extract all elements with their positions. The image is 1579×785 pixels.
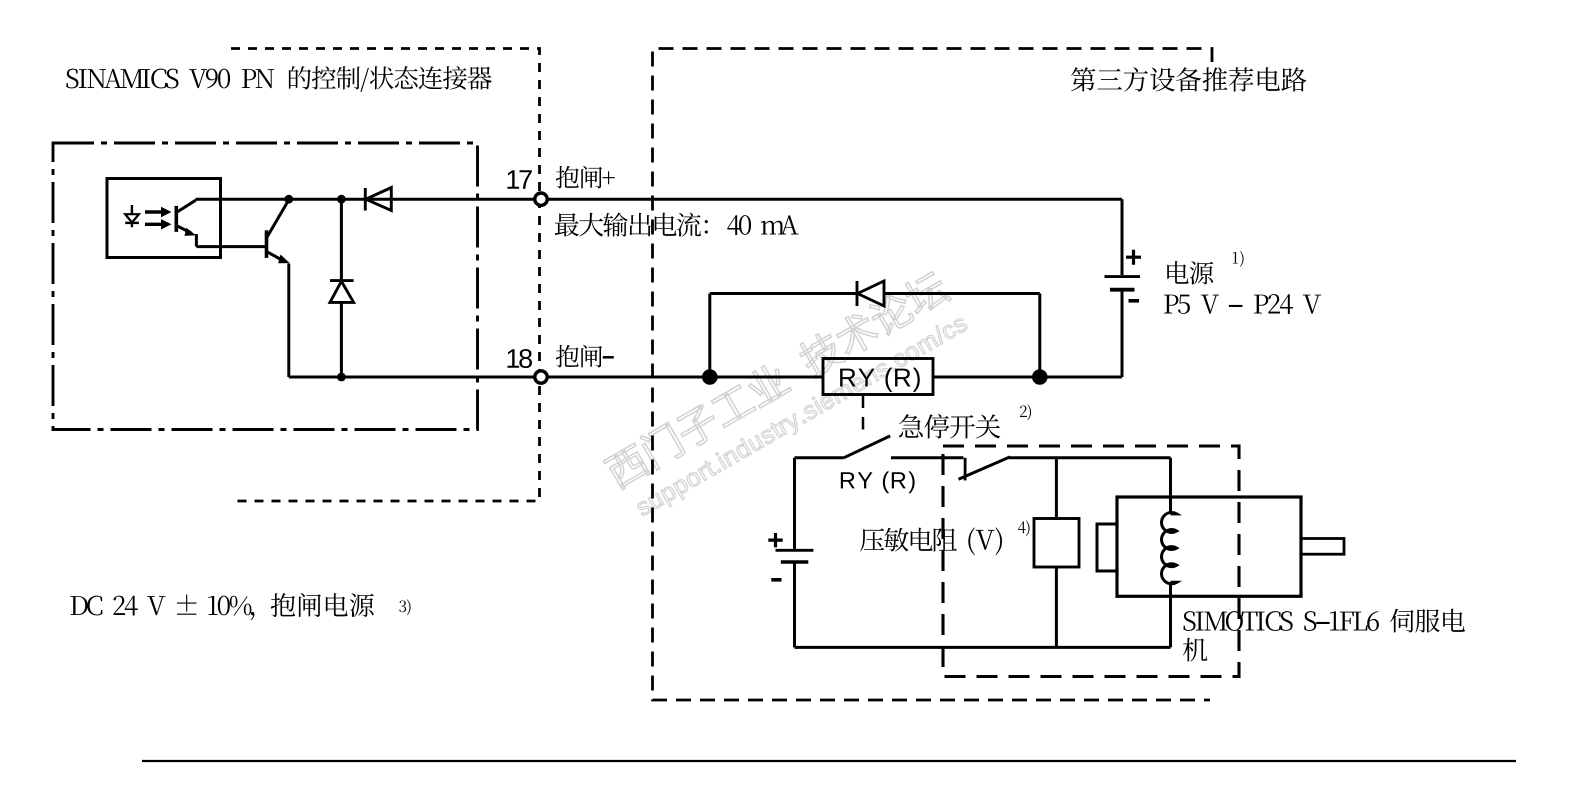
switch S1 contact blade RY (R) xyxy=(844,436,891,458)
wire terminal 17 to supply xyxy=(547,198,1122,201)
watermark forum text xyxy=(602,267,971,524)
wire relay to right junction xyxy=(933,376,1040,379)
terminal 18 circle xyxy=(535,371,547,383)
motor shaft xyxy=(1301,539,1344,555)
wire coil to bottom rail xyxy=(1169,582,1172,647)
terminal 17 circle xyxy=(535,193,547,205)
motor body box xyxy=(1117,497,1301,596)
horizontal rule xyxy=(142,760,1516,762)
label supply 电源 xyxy=(1167,261,1213,284)
varistor RV box xyxy=(1034,519,1079,568)
optocoupler light arrows xyxy=(145,207,172,230)
transistor Q2 xyxy=(267,201,290,378)
label switch RY (R) xyxy=(841,471,915,493)
wire battery to switch xyxy=(795,456,844,459)
label relay coil RY (R) xyxy=(840,368,920,392)
label SIMOTICS S-1FL6 servo motor xyxy=(1183,609,1465,662)
node junction dot C xyxy=(337,373,346,382)
relay coil RY (R) box xyxy=(823,359,933,395)
wire right junction to supply xyxy=(1040,376,1122,379)
wire brake+ rail (collector to terminal 17) xyxy=(196,198,535,201)
label varistor xyxy=(860,527,1002,555)
node junction dot B xyxy=(337,195,346,204)
label third-party recommended circuit title xyxy=(1071,67,1306,92)
dotted enclosure box (SINAMICS V90 PN connector region) xyxy=(231,49,540,502)
wire bottom return rail xyxy=(795,646,1171,649)
label terminal 17 xyxy=(507,170,531,189)
wire freewheel right leg xyxy=(1038,294,1041,378)
wire varistor top leg xyxy=(1055,458,1058,519)
battery BT1 (brake supply) xyxy=(1105,199,1142,377)
wire Q2 emitter rail to terminal 18 xyxy=(289,376,535,379)
wire terminal 18 to relay xyxy=(547,376,823,379)
wire freewheel top right xyxy=(884,292,1040,295)
label DC 24 V brake supply xyxy=(70,593,373,620)
battery BT2 (DC 24 V) xyxy=(768,458,813,648)
label brake+ xyxy=(556,166,615,189)
label brake- xyxy=(556,345,614,368)
wire varistor bottom leg xyxy=(1055,567,1058,647)
dashed link relay coil to contact xyxy=(862,396,865,434)
label footnote 1) xyxy=(1233,251,1244,267)
inductor L1 (brake coil) xyxy=(1162,512,1177,583)
wire switch to brake contact xyxy=(891,456,963,459)
label SINAMICS V90 PN connector title xyxy=(66,66,491,92)
phototransistor Q1 xyxy=(176,200,196,246)
wire Q1 emitter to Q2 base xyxy=(196,245,265,248)
node junction dot A xyxy=(284,195,293,204)
brake release contact S2 xyxy=(959,457,1011,481)
label P5 V - P24 V xyxy=(1164,294,1321,314)
dashed enclosure box (third-party device circuit region) xyxy=(653,49,1213,701)
label max output current 40 mA xyxy=(555,212,799,236)
node junction dot E xyxy=(1032,369,1048,385)
wire contact to coil xyxy=(1009,456,1171,459)
diode D1 (vertical clamp) xyxy=(330,199,354,377)
label emergency stop switch xyxy=(899,414,1000,439)
node junction dot D xyxy=(702,369,718,385)
wire coil drop xyxy=(1169,458,1172,514)
optocoupler U1 package box xyxy=(107,179,221,258)
diode D3 (freewheeling across relay) xyxy=(857,281,884,306)
optocoupler LED xyxy=(125,205,139,227)
label footnote 3) xyxy=(399,599,410,615)
dash-dot internal box (driver output stage) xyxy=(53,143,478,430)
wire freewheel left leg xyxy=(708,294,711,378)
dashed motor box (SIMOTICS S-1FL6) xyxy=(943,446,1239,677)
label terminal 18 xyxy=(507,349,532,368)
label footnote 4) xyxy=(1018,520,1030,536)
diode D2 (series in brake+ line) xyxy=(365,188,391,211)
wire freewheel top left xyxy=(710,292,857,295)
motor brake pad xyxy=(1097,524,1117,571)
label footnote 2) xyxy=(1020,404,1031,420)
